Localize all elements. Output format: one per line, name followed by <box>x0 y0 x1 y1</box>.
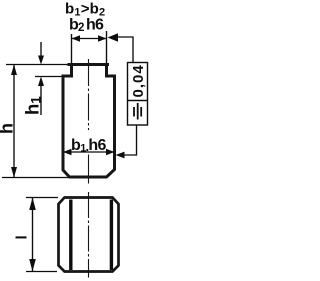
bottom view tangent bar left <box>69 200 72 271</box>
front view outline <box>63 65 115 178</box>
feature control frame divider <box>128 100 148 102</box>
parallelism symbol bar right <box>140 107 142 117</box>
dimension h1: upper leader stem <box>40 42 42 58</box>
dimension b1: dimension line <box>63 151 115 153</box>
dimension b1: right arrowhead <box>106 149 115 155</box>
dimension b2: dimension line <box>72 38 107 40</box>
dimension b2: extension line right <box>106 31 108 64</box>
bottom view centerline <box>88 192 90 278</box>
dimension h1: upper arrowhead (down) <box>38 56 44 65</box>
dimension h: dimension line <box>13 65 15 178</box>
dot in label b1.h6 <box>86 149 88 151</box>
feature control frame box <box>128 63 148 126</box>
tolerance frame leader top: horizontal + vertical <box>118 37 134 63</box>
tolerance frame leader bottom: vertical + horizontal <box>124 125 137 155</box>
front view centerline lower segment <box>88 155 90 184</box>
front view centerline <box>88 59 90 130</box>
svg-text:0,04: 0,04 <box>130 64 147 97</box>
tolerance frame leader bottom: arrowhead on body right edge <box>116 152 125 159</box>
svg-text:h: h <box>0 123 17 134</box>
dimension l: top extension line <box>26 197 58 199</box>
dimension h1: lower leader stem <box>40 84 42 115</box>
dimension l: bottom arrowhead <box>29 259 36 272</box>
svg-text:l: l <box>14 235 31 239</box>
svg-text:b1 h6: b1 h6 <box>71 137 106 155</box>
dimension h1: extension line at shoulder <box>35 76 63 78</box>
dimension b2: left arrowhead <box>72 35 81 41</box>
svg-text:h1: h1 <box>22 96 44 115</box>
top surface overshoot left <box>68 63 72 66</box>
dimension b2: right arrowhead <box>98 35 107 41</box>
bottom view tangent bar right <box>110 200 113 271</box>
top surface overshoot right <box>107 63 110 66</box>
dimension l: bottom extension line <box>26 271 57 273</box>
dimension h: top arrowhead <box>11 65 17 76</box>
dimension h: bottom arrowhead <box>11 167 17 178</box>
dimension l: top arrowhead <box>29 198 36 211</box>
bottom view outline (rounded rectangle) <box>59 198 119 272</box>
parallelism symbol bar middle <box>137 103 139 120</box>
dimension h1: lower arrowhead (up) <box>38 77 44 87</box>
dimension h: top extension line <box>6 64 72 66</box>
svg-text:b2 h6: b2 h6 <box>69 17 104 35</box>
dimension b2: extension line left <box>71 34 73 64</box>
dimension l: dimension line <box>32 198 34 272</box>
dimension h: bottom extension line <box>2 177 70 179</box>
dimension b1: left arrowhead <box>63 149 72 155</box>
tolerance frame leader top: arrowhead on b2 extension line <box>108 33 119 42</box>
parallelism symbol bar left <box>133 107 135 117</box>
